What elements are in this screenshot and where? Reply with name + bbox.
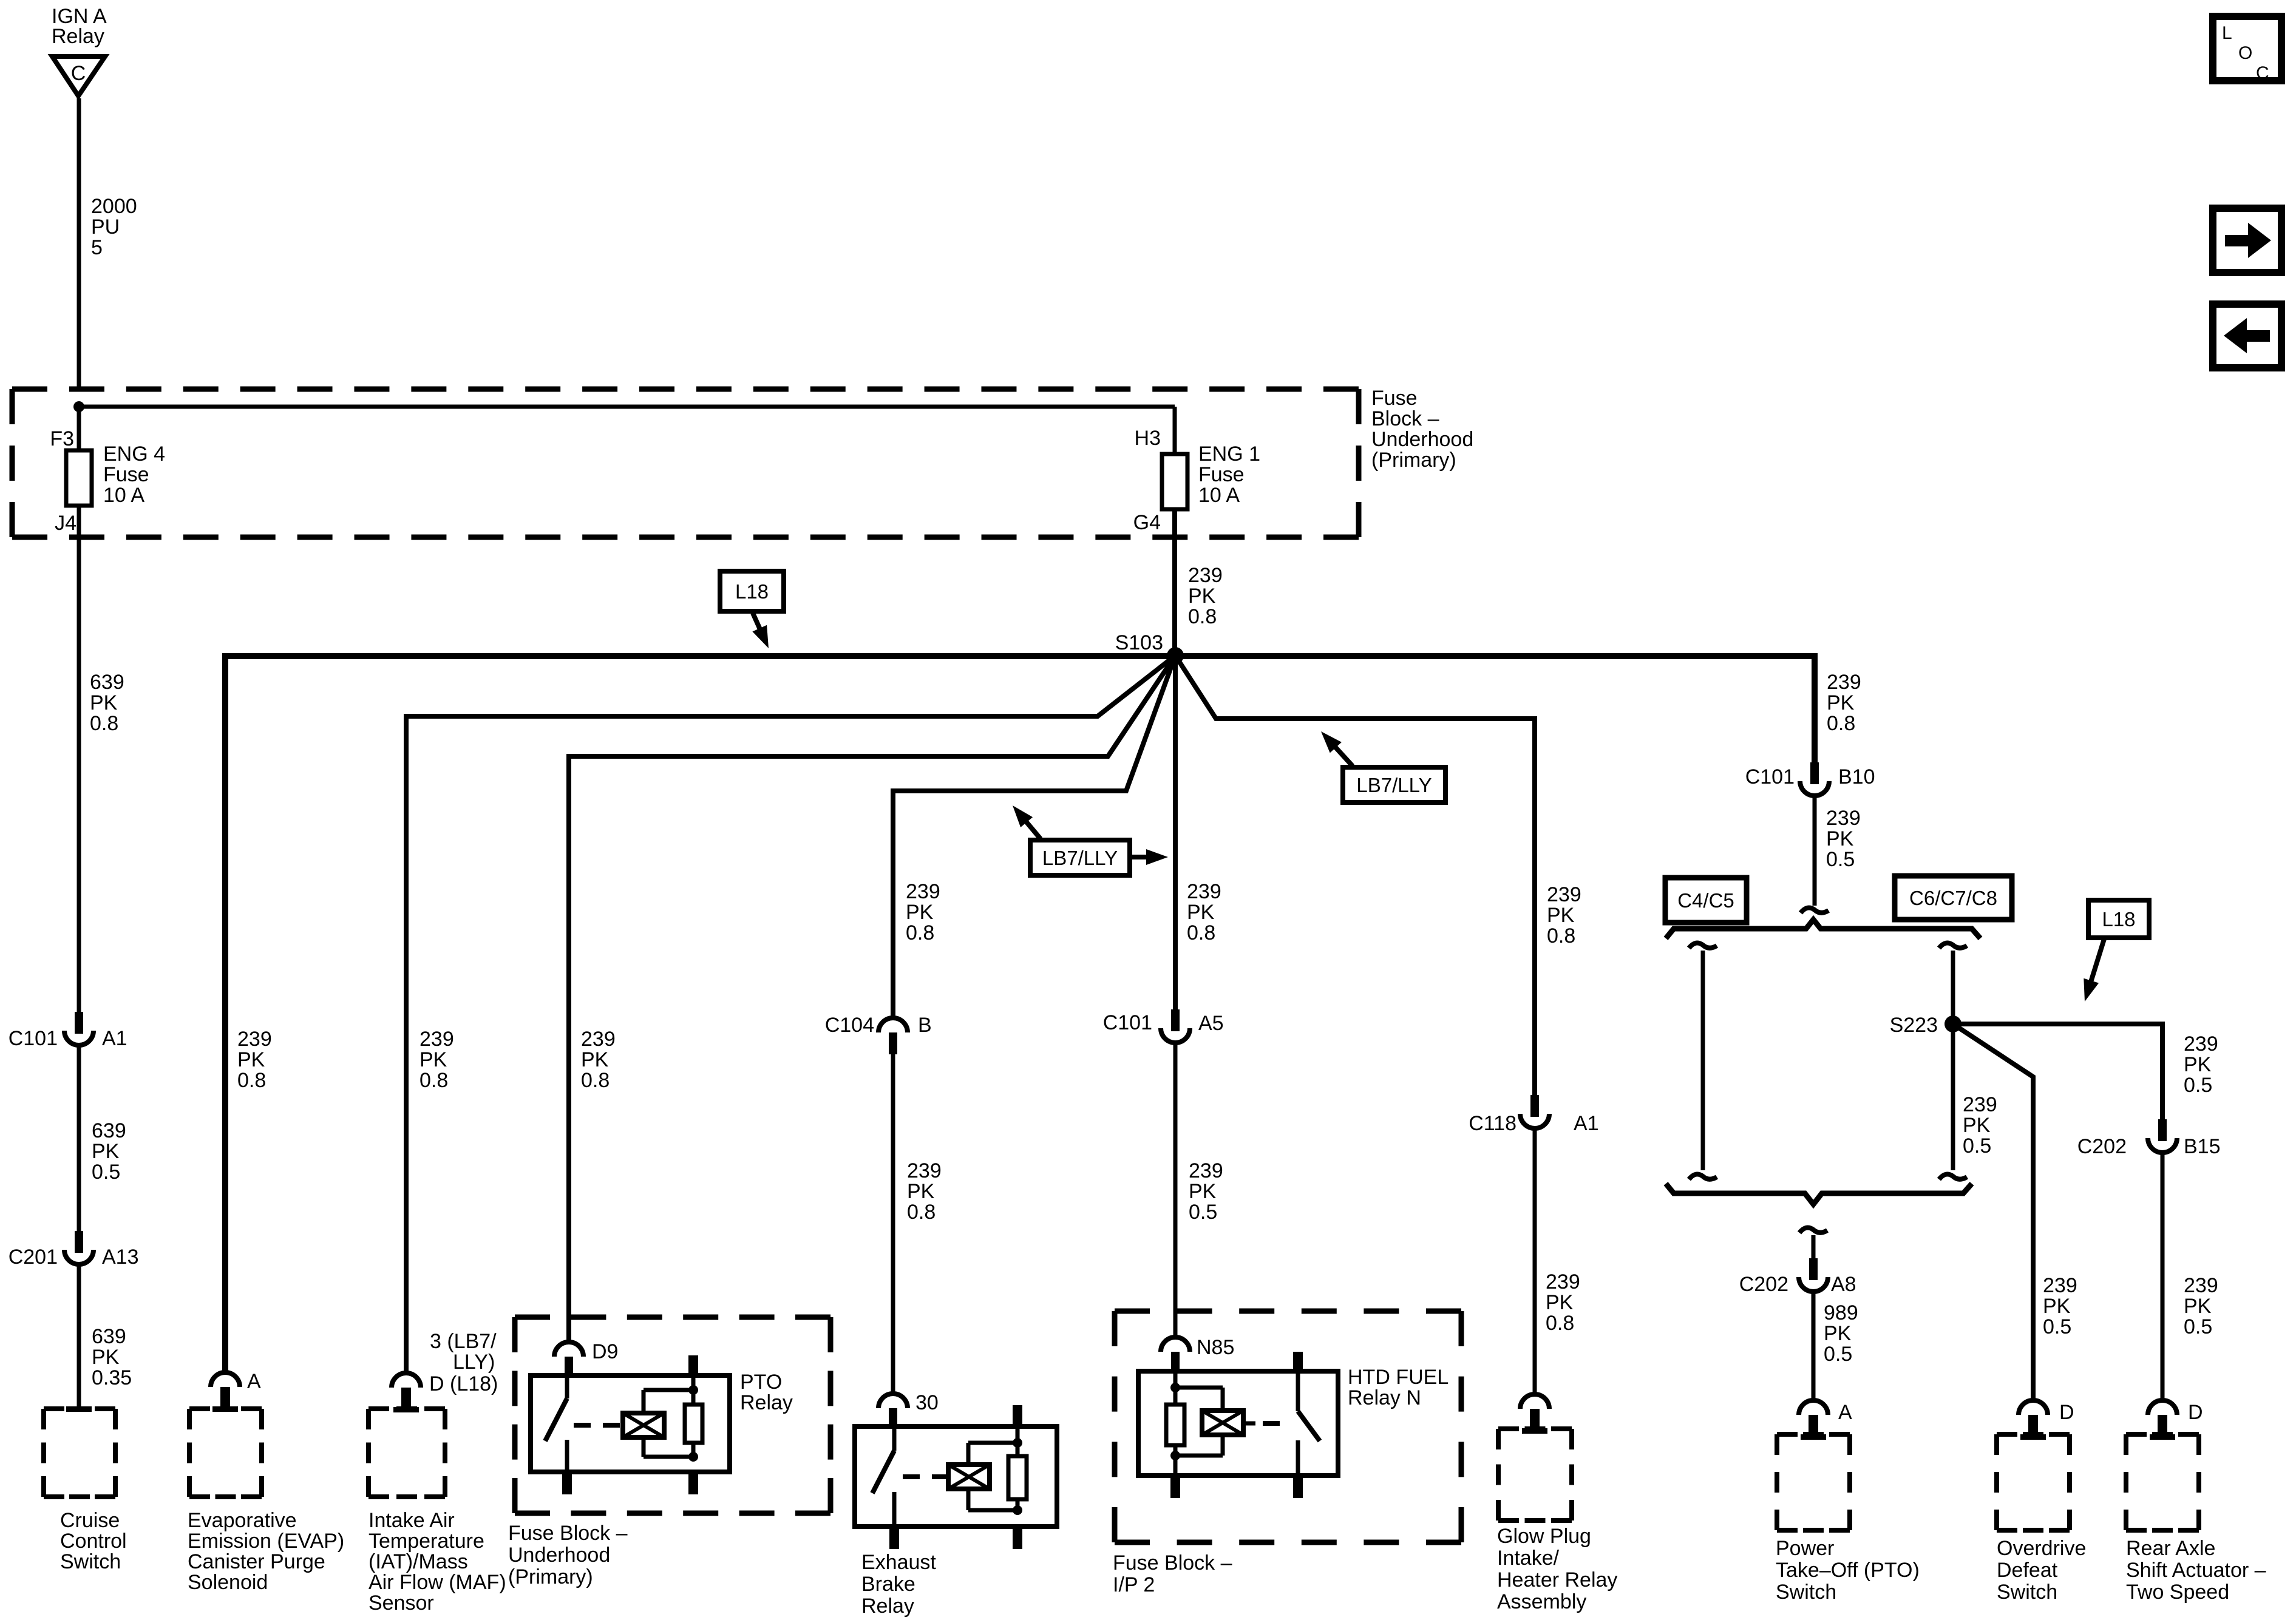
wire label 239 PK 0.5 below B10 bbox=[1826, 807, 1861, 871]
connector pin D at IAT/MAF sensor bbox=[392, 1373, 421, 1412]
PTO relay actuation dashed link bbox=[574, 1423, 620, 1428]
svg-text:Cruise: Cruise bbox=[60, 1509, 120, 1532]
net label LB7/LLY with arrow to glow plug branch bbox=[1321, 731, 1445, 802]
svg-text:PK: PK bbox=[1826, 827, 1854, 850]
PTO relay junction bottom bbox=[688, 1452, 698, 1462]
svg-text:639: 639 bbox=[92, 1119, 126, 1142]
svg-text:C6/C7/C8: C6/C7/C8 bbox=[1909, 887, 1997, 909]
PTO relay terminal stubs bbox=[562, 1355, 698, 1494]
svg-text:C101: C101 bbox=[1745, 765, 1795, 788]
svg-text:239: 239 bbox=[2184, 1274, 2218, 1297]
component box Power Take-Off (PTO) Switch bbox=[1777, 1434, 1850, 1530]
relay box Exhaust Brake Relay bbox=[855, 1426, 1057, 1527]
svg-text:5: 5 bbox=[91, 236, 103, 259]
wire 239 PK from C104 to exhaust brake relay bbox=[891, 1054, 895, 1394]
wire branch S103 to IAT sensor bbox=[406, 656, 1175, 1374]
label Intake Air Temperature (IAT)/Mass Air Flow (MAF) Sensor bbox=[369, 1509, 506, 1615]
svg-text:0.5: 0.5 bbox=[1826, 848, 1855, 871]
wire label 239 PK 0.8 C104 bbox=[906, 880, 940, 944]
svg-text:Sensor: Sensor bbox=[369, 1592, 434, 1615]
fuse block - underhood (primary) bottom dashed box bbox=[515, 1317, 830, 1513]
wire 239 PK from S103 to C101 A5 bbox=[1173, 656, 1178, 1009]
svg-text:Fuse Block –: Fuse Block – bbox=[1113, 1551, 1232, 1575]
svg-text:Fuse: Fuse bbox=[1198, 463, 1245, 486]
svg-text:0.5: 0.5 bbox=[92, 1161, 120, 1184]
wire label 239 PK 0.5 rear axle bbox=[2184, 1274, 2218, 1338]
wire S223 to C202 B15 branch bbox=[1953, 1024, 2162, 1119]
connector C201 pin A13 bbox=[8, 1231, 139, 1269]
HTD FUEL relay switch contact lower bbox=[1296, 1440, 1300, 1476]
svg-text:0.5: 0.5 bbox=[2184, 1315, 2212, 1338]
svg-text:D (L18): D (L18) bbox=[429, 1372, 498, 1395]
connector C118 pin A1 bbox=[1469, 1095, 1598, 1135]
svg-text:Evaporative: Evaporative bbox=[188, 1509, 297, 1532]
wire label 639 PK 0.35 bbox=[92, 1325, 132, 1389]
wire label 639 PK 0.5 bbox=[92, 1119, 126, 1184]
svg-text:L: L bbox=[2222, 23, 2232, 43]
svg-text:G4: G4 bbox=[1133, 511, 1161, 534]
net label LB7/LLY with arrows bbox=[1013, 805, 1168, 875]
svg-text:239: 239 bbox=[1547, 883, 1581, 906]
relay box HTD FUEL Relay N bbox=[1138, 1371, 1338, 1476]
svg-text:C101: C101 bbox=[8, 1027, 58, 1050]
svg-text:(Primary): (Primary) bbox=[508, 1565, 593, 1588]
exhaust brake relay coil bbox=[948, 1465, 990, 1489]
svg-text:Relay: Relay bbox=[861, 1595, 914, 1617]
exhaust brake relay junction top bbox=[1013, 1438, 1022, 1448]
HTD FUEL relay coil bottom wire bbox=[1175, 1436, 1223, 1456]
svg-text:C201: C201 bbox=[8, 1246, 58, 1269]
connector C202 pin B15 bbox=[2077, 1119, 2221, 1158]
svg-text:239: 239 bbox=[907, 1159, 942, 1182]
wire label 239 PK 0.8 below G4 bbox=[1188, 564, 1223, 628]
svg-text:0.8: 0.8 bbox=[581, 1069, 610, 1092]
PTO relay switch contact lower bbox=[565, 1440, 569, 1472]
wire label 239 PK 0.8 above C101 A5 bbox=[1187, 880, 1221, 944]
svg-text:Block –: Block – bbox=[1371, 407, 1439, 430]
component box Rear Axle Shift Actuator - Two Speed bbox=[2126, 1434, 2199, 1530]
svg-text:N85: N85 bbox=[1197, 1336, 1234, 1359]
svg-text:L18: L18 bbox=[2102, 908, 2135, 931]
HTD FUEL relay coil bbox=[1202, 1411, 1243, 1435]
label Evaporative Emission (EVAP) Canister Purge Solenoid bbox=[188, 1509, 344, 1594]
svg-text:239: 239 bbox=[237, 1028, 272, 1051]
svg-text:Control: Control bbox=[60, 1530, 127, 1553]
PTO relay coil bbox=[623, 1413, 664, 1437]
wire 239 PK 0.5 from C101 A5 to N85 bbox=[1173, 1043, 1178, 1338]
svg-text:PK: PK bbox=[1963, 1114, 1991, 1137]
svg-text:30: 30 bbox=[915, 1391, 939, 1414]
svg-text:A13: A13 bbox=[102, 1246, 139, 1269]
label Fuse Block - Underhood (Primary) bottom bbox=[508, 1522, 628, 1588]
connector label box C4/C5 bbox=[1665, 878, 1747, 923]
svg-text:Relay N: Relay N bbox=[1348, 1386, 1421, 1409]
splice node S223 bbox=[1890, 1014, 1961, 1037]
svg-text:PU: PU bbox=[91, 215, 120, 239]
svg-text:0.5: 0.5 bbox=[2043, 1315, 2071, 1338]
wire label 239 PK 0.8 right branch bbox=[1827, 671, 1861, 735]
svg-text:PK: PK bbox=[237, 1048, 265, 1071]
svg-text:A1: A1 bbox=[102, 1027, 127, 1050]
power symbol IGN A Relay triangle, pin C bbox=[52, 5, 107, 96]
svg-text:239: 239 bbox=[2184, 1032, 2218, 1056]
svg-text:239: 239 bbox=[1827, 671, 1861, 694]
svg-text:F3: F3 bbox=[50, 427, 74, 450]
net label L18 with arrow to bus bbox=[720, 571, 784, 648]
net label L18 with arrow near S223 bbox=[2084, 900, 2149, 1002]
svg-text:D: D bbox=[2059, 1401, 2074, 1424]
wire label 2000 PU 5 bbox=[91, 195, 137, 259]
svg-text:C104: C104 bbox=[825, 1014, 874, 1037]
svg-text:A: A bbox=[1838, 1401, 1852, 1424]
connector pin N85 bbox=[1161, 1336, 1234, 1371]
label HTD FUEL Relay N bbox=[1348, 1366, 1449, 1409]
svg-text:Solenoid: Solenoid bbox=[188, 1571, 268, 1594]
svg-text:B: B bbox=[918, 1014, 932, 1037]
label Rear Axle Shift Actuator - Two Speed bbox=[2126, 1537, 2266, 1604]
svg-text:PK: PK bbox=[1547, 904, 1575, 927]
svg-text:0.8: 0.8 bbox=[906, 921, 934, 944]
svg-text:Defeat: Defeat bbox=[1997, 1559, 2058, 1582]
component box EVAP Canister Purge Solenoid bbox=[189, 1409, 262, 1497]
HTD FUEL relay coil link wire bbox=[1243, 1422, 1255, 1426]
svg-text:C101: C101 bbox=[1103, 1011, 1152, 1034]
PTO relay switch blade bbox=[545, 1398, 567, 1441]
connector C104 pin B bbox=[825, 1014, 932, 1054]
junction node on wire at fuse block entry bbox=[73, 401, 84, 412]
svg-text:PK: PK bbox=[1189, 1180, 1217, 1203]
PTO relay switch contact upper bbox=[565, 1375, 569, 1398]
svg-text:Shift Actuator –: Shift Actuator – bbox=[2126, 1559, 2266, 1582]
svg-text:PK: PK bbox=[581, 1048, 609, 1071]
label Exhaust Brake Relay bbox=[861, 1551, 936, 1617]
HTD FUEL relay coil top wire bbox=[1175, 1388, 1223, 1411]
HTD FUEL relay actuation dashed link bbox=[1263, 1421, 1290, 1426]
HTD FUEL relay resistor branch bottom bbox=[1173, 1445, 1178, 1476]
component box Overdrive Defeat Switch bbox=[1997, 1434, 2070, 1530]
svg-text:C: C bbox=[2256, 63, 2269, 83]
fuse F3 ENG 4 10A bbox=[66, 450, 92, 506]
svg-text:Heater Relay: Heater Relay bbox=[1497, 1568, 1617, 1592]
svg-text:O: O bbox=[2238, 43, 2252, 63]
svg-text:Intake Air: Intake Air bbox=[369, 1509, 455, 1532]
svg-text:Two Speed: Two Speed bbox=[2126, 1581, 2229, 1604]
label Fuse Block - Underhood (Primary) bbox=[1371, 387, 1473, 472]
svg-text:0.5: 0.5 bbox=[1824, 1343, 1852, 1366]
svg-text:239: 239 bbox=[419, 1028, 454, 1051]
svg-text:LB7/LLY: LB7/LLY bbox=[1356, 774, 1432, 796]
svg-text:D: D bbox=[2188, 1401, 2203, 1424]
svg-text:Rear Axle: Rear Axle bbox=[2126, 1537, 2215, 1560]
svg-text:PK: PK bbox=[1546, 1291, 1574, 1314]
connector pin D at overdrive defeat switch bbox=[2019, 1400, 2074, 1440]
svg-text:Overdrive: Overdrive bbox=[1997, 1537, 2086, 1560]
svg-text:PK: PK bbox=[92, 1346, 120, 1369]
wire through connectors C6/C7/C8 via S223 bbox=[1951, 951, 1955, 1170]
svg-text:2000: 2000 bbox=[91, 195, 137, 218]
exhaust brake relay junction bottom bbox=[1013, 1505, 1022, 1515]
PTO relay resistor bbox=[685, 1375, 702, 1457]
svg-text:Relay: Relay bbox=[52, 25, 104, 48]
wire label 239 PK 0.8 below C104 bbox=[907, 1159, 942, 1224]
svg-text:A5: A5 bbox=[1198, 1012, 1224, 1035]
svg-text:Fuse Block –: Fuse Block – bbox=[508, 1522, 628, 1545]
exhaust brake relay switch blade bbox=[872, 1451, 894, 1493]
svg-text:Glow Plug: Glow Plug bbox=[1497, 1525, 1591, 1548]
wire branch S103 to C118 bbox=[1175, 656, 1535, 1095]
svg-text:H3: H3 bbox=[1135, 427, 1161, 450]
svg-text:C118: C118 bbox=[1469, 1112, 1517, 1135]
svg-text:0.35: 0.35 bbox=[92, 1366, 132, 1389]
main bus wire S103 horizontal bbox=[225, 656, 1815, 1373]
HTD FUEL relay junction bottom bbox=[1170, 1451, 1180, 1460]
svg-text:S103: S103 bbox=[1115, 631, 1163, 654]
continuation hook left sub-wire bottom bbox=[1689, 1174, 1717, 1179]
wire label 239 PK 0.5 B15 branch bbox=[2184, 1032, 2218, 1097]
svg-text:(Primary): (Primary) bbox=[1371, 449, 1456, 472]
svg-text:0.5: 0.5 bbox=[1963, 1134, 1991, 1158]
wire label 239 PK 0.8 PTO relay bbox=[581, 1028, 616, 1092]
svg-text:C202: C202 bbox=[1739, 1273, 1788, 1296]
label Overdrive Defeat Switch bbox=[1997, 1537, 2086, 1604]
svg-text:0.8: 0.8 bbox=[1547, 924, 1575, 947]
svg-text:0.8: 0.8 bbox=[237, 1069, 266, 1092]
svg-text:PK: PK bbox=[2184, 1053, 2212, 1076]
svg-text:239: 239 bbox=[581, 1028, 616, 1051]
exhaust brake relay coil bottom wire bbox=[968, 1489, 1017, 1510]
wire 639 PK from J4 to C101 A1 bbox=[77, 506, 81, 1012]
svg-text:C: C bbox=[71, 62, 86, 85]
svg-text:J4: J4 bbox=[55, 512, 76, 535]
svg-text:Exhaust: Exhaust bbox=[861, 1551, 936, 1574]
svg-text:B10: B10 bbox=[1838, 765, 1875, 788]
svg-text:239: 239 bbox=[1187, 880, 1221, 903]
connector pin A at EVAP solenoid bbox=[211, 1370, 261, 1412]
svg-text:989: 989 bbox=[1824, 1301, 1858, 1324]
svg-text:10 A: 10 A bbox=[103, 484, 144, 507]
HTD FUEL relay resistor branch top bbox=[1173, 1371, 1178, 1405]
HTD FUEL relay junction top bbox=[1170, 1383, 1180, 1392]
svg-text:Air Flow (MAF): Air Flow (MAF) bbox=[369, 1571, 506, 1594]
connector C202 pin A8 bbox=[1739, 1258, 1856, 1296]
fuse block - underhood (primary) dashed box bbox=[12, 389, 1359, 537]
continuation hook below bottom bracket bbox=[1799, 1227, 1827, 1233]
connector C101 pin B10 bbox=[1745, 762, 1875, 796]
wire from junction to H3 bbox=[79, 405, 1175, 409]
PTO relay junction top bbox=[688, 1385, 698, 1395]
HTD FUEL relay terminal stubs bbox=[1170, 1352, 1303, 1498]
svg-text:239: 239 bbox=[1546, 1270, 1580, 1293]
wire 239 PK 0.5 from C101 B10 bbox=[1813, 796, 1817, 906]
wire from bracket to C202 A8 bbox=[1812, 1235, 1816, 1258]
svg-text:A8: A8 bbox=[1831, 1273, 1856, 1296]
exhaust brake relay terminal stubs bbox=[889, 1405, 1022, 1549]
svg-text:PK: PK bbox=[1187, 901, 1215, 924]
svg-text:Intake/: Intake/ bbox=[1497, 1547, 1560, 1570]
svg-text:239: 239 bbox=[1188, 564, 1223, 587]
svg-text:PK: PK bbox=[2043, 1295, 2071, 1318]
wire label 239 PK 0.5 below S223 bbox=[1963, 1093, 1997, 1158]
wire 2000 PU from IGN A Relay to fuse block bbox=[77, 98, 81, 392]
svg-text:0.8: 0.8 bbox=[1187, 921, 1215, 944]
connector C101 pin A1 bbox=[8, 1012, 127, 1050]
value label ENG 4 Fuse 10 A bbox=[103, 442, 165, 507]
pin label H3 bbox=[1135, 427, 1161, 450]
svg-text:PTO: PTO bbox=[740, 1371, 782, 1394]
wire 239 PK from G4 to S103 bbox=[1172, 508, 1177, 656]
exhaust brake relay switch contact lower bbox=[892, 1492, 897, 1527]
wire 239 PK from C118 to glow plug relay assembly bbox=[1533, 1129, 1537, 1395]
label Glow Plug Intake/Heater Relay Assembly bbox=[1497, 1525, 1617, 1613]
wire H3 drop bbox=[1173, 407, 1177, 454]
continuation hook left sub-wire top bbox=[1689, 943, 1717, 948]
svg-text:639: 639 bbox=[90, 671, 124, 694]
svg-text:239: 239 bbox=[1963, 1093, 1997, 1116]
svg-text:Brake: Brake bbox=[861, 1573, 915, 1596]
svg-text:LLY): LLY) bbox=[453, 1351, 495, 1374]
bottom bracket connectors bbox=[1666, 1184, 1972, 1204]
svg-text:Underhood: Underhood bbox=[508, 1544, 610, 1567]
wire 639 PK 0.5 from C101 A1 to C201 A13 bbox=[77, 1046, 81, 1231]
wire through connectors C4/C5 bbox=[1701, 951, 1705, 1170]
svg-text:PK: PK bbox=[1824, 1322, 1852, 1345]
wire S223 to overdrive defeat switch bbox=[1953, 1024, 2033, 1401]
wire label 989 PK 0.5 bbox=[1824, 1301, 1858, 1366]
svg-text:10 A: 10 A bbox=[1198, 484, 1240, 507]
label Power Take-Off (PTO) Switch bbox=[1776, 1537, 1920, 1604]
svg-text:3 (LB7/: 3 (LB7/ bbox=[430, 1330, 497, 1353]
svg-text:C4/C5: C4/C5 bbox=[1677, 889, 1734, 912]
HTD FUEL relay resistor bbox=[1166, 1405, 1184, 1445]
svg-text:Fuse: Fuse bbox=[1371, 387, 1418, 410]
wire 989 PK 0.5 to PTO switch bbox=[1812, 1292, 1816, 1401]
svg-text:Underhood: Underhood bbox=[1371, 428, 1473, 451]
legend box LOC bbox=[2213, 16, 2281, 83]
wire branch S103 to PTO relay bbox=[569, 656, 1175, 1343]
wire 239 PK 0.5 to rear axle shift actuator bbox=[2161, 1153, 2165, 1401]
HTD FUEL relay switch blade bbox=[1298, 1411, 1320, 1441]
legend box arrow right bbox=[2213, 208, 2281, 273]
fuse H3 ENG 1 10A bbox=[1162, 454, 1187, 509]
splice node S103 bbox=[1115, 631, 1184, 664]
component box IAT/MAF sensor bbox=[369, 1409, 445, 1497]
svg-text:B15: B15 bbox=[2184, 1135, 2221, 1158]
wire 639 PK 0.35 from C201 to cruise control switch bbox=[77, 1265, 81, 1407]
value label ENG 1 Fuse 10 A bbox=[1198, 442, 1260, 507]
wire junction drop to F3 bbox=[77, 407, 81, 450]
fuse block - I/P 2 dashed box bbox=[1115, 1311, 1461, 1542]
svg-text:ENG 4: ENG 4 bbox=[103, 442, 165, 466]
legend box arrow left bbox=[2213, 304, 2281, 368]
continuation hook above bracket bbox=[1801, 907, 1829, 913]
terminal bar at cruise control switch bbox=[66, 1406, 92, 1412]
svg-text:PK: PK bbox=[906, 901, 934, 924]
svg-text:PK: PK bbox=[1827, 691, 1855, 714]
wire label 239 PK 0.8 IAT bbox=[419, 1028, 454, 1092]
wire label 239 PK 0.8 glow plug bbox=[1547, 883, 1581, 947]
svg-text:239: 239 bbox=[1826, 807, 1861, 830]
component box Glow Plug Intake/Heater Relay Assembly bbox=[1498, 1429, 1572, 1520]
svg-text:Emission (EVAP): Emission (EVAP) bbox=[188, 1530, 344, 1553]
continuation hook right sub-wire bottom bbox=[1939, 1174, 1967, 1179]
pin label F3 bbox=[50, 427, 74, 450]
top bracket connectors C4/C5 C6/C7/C8 bbox=[1666, 920, 1980, 938]
svg-text:0.8: 0.8 bbox=[907, 1201, 936, 1224]
svg-text:A1: A1 bbox=[1574, 1112, 1599, 1135]
svg-text:Take–Off (PTO): Take–Off (PTO) bbox=[1776, 1559, 1920, 1582]
exhaust brake relay actuation dashed link bbox=[903, 1474, 947, 1479]
connector C101 pin A5 bbox=[1103, 1009, 1224, 1043]
wire label 239 PK 0.5 overdrive bbox=[2043, 1274, 2077, 1338]
svg-text:Power: Power bbox=[1776, 1537, 1834, 1560]
svg-text:639: 639 bbox=[92, 1325, 126, 1348]
relay box PTO Relay bbox=[531, 1375, 730, 1472]
svg-text:I/P 2: I/P 2 bbox=[1113, 1573, 1155, 1596]
svg-text:0.8: 0.8 bbox=[1188, 605, 1217, 628]
label Fuse Block - I/P 2 bbox=[1113, 1551, 1232, 1596]
svg-text:D9: D9 bbox=[592, 1340, 618, 1363]
svg-text:LB7/LLY: LB7/LLY bbox=[1042, 847, 1118, 869]
label Cruise Control Switch bbox=[60, 1509, 127, 1573]
svg-text:Assembly: Assembly bbox=[1497, 1590, 1586, 1613]
svg-text:Switch: Switch bbox=[1776, 1581, 1836, 1604]
svg-text:Canister Purge: Canister Purge bbox=[188, 1550, 325, 1573]
svg-text:(IAT)/Mass: (IAT)/Mass bbox=[369, 1550, 468, 1573]
svg-text:0.8: 0.8 bbox=[1827, 712, 1855, 735]
wire label 639 PK 0.8 bbox=[90, 671, 124, 735]
svg-text:A: A bbox=[247, 1370, 261, 1393]
exhaust brake relay switch contact upper bbox=[892, 1426, 897, 1451]
svg-text:239: 239 bbox=[2043, 1274, 2077, 1297]
svg-text:239: 239 bbox=[1189, 1159, 1223, 1182]
wire label 239 PK 0.5 below C101 A5 bbox=[1189, 1159, 1223, 1224]
connector pin 30 bbox=[878, 1391, 939, 1426]
HTD FUEL relay switch contact upper bbox=[1296, 1371, 1300, 1411]
svg-text:Fuse: Fuse bbox=[103, 463, 149, 486]
svg-text:ENG 1: ENG 1 bbox=[1198, 442, 1260, 466]
wire branch S103 to C104 bbox=[893, 656, 1175, 1018]
svg-text:0.5: 0.5 bbox=[2184, 1074, 2212, 1097]
svg-text:0.8: 0.8 bbox=[1546, 1312, 1574, 1335]
svg-text:239: 239 bbox=[906, 880, 940, 903]
svg-text:Switch: Switch bbox=[60, 1550, 121, 1573]
svg-text:S223: S223 bbox=[1890, 1014, 1938, 1037]
connector pin at glow plug assembly bbox=[1520, 1394, 1549, 1434]
svg-text:L18: L18 bbox=[735, 580, 769, 603]
svg-text:HTD FUEL: HTD FUEL bbox=[1348, 1366, 1449, 1389]
svg-text:0.5: 0.5 bbox=[1189, 1201, 1217, 1224]
svg-text:PK: PK bbox=[2184, 1295, 2212, 1318]
label PTO Relay bbox=[740, 1371, 793, 1414]
svg-text:0.8: 0.8 bbox=[90, 712, 118, 735]
svg-text:PK: PK bbox=[1188, 585, 1216, 608]
continuation hook right sub-wire top bbox=[1939, 943, 1967, 948]
exhaust brake relay resistor bbox=[1008, 1426, 1027, 1510]
svg-text:PK: PK bbox=[92, 1140, 120, 1163]
svg-text:0.8: 0.8 bbox=[419, 1069, 448, 1092]
pin label 3 (LB7/LLY) D (L18) bbox=[429, 1330, 498, 1395]
connector pin A at PTO switch bbox=[1799, 1400, 1852, 1440]
svg-text:Relay: Relay bbox=[740, 1391, 793, 1414]
svg-text:C202: C202 bbox=[2077, 1135, 2127, 1158]
wire label 239 PK 0.8 below C118 bbox=[1546, 1270, 1580, 1335]
pin label J4 bbox=[55, 512, 76, 535]
svg-text:PK: PK bbox=[90, 691, 118, 714]
exhaust brake relay coil top wire bbox=[968, 1443, 1017, 1465]
svg-text:Temperature: Temperature bbox=[369, 1530, 484, 1553]
PTO relay coil bottom wire bbox=[644, 1437, 693, 1457]
connector label box C6/C7/C8 bbox=[1895, 876, 2012, 920]
